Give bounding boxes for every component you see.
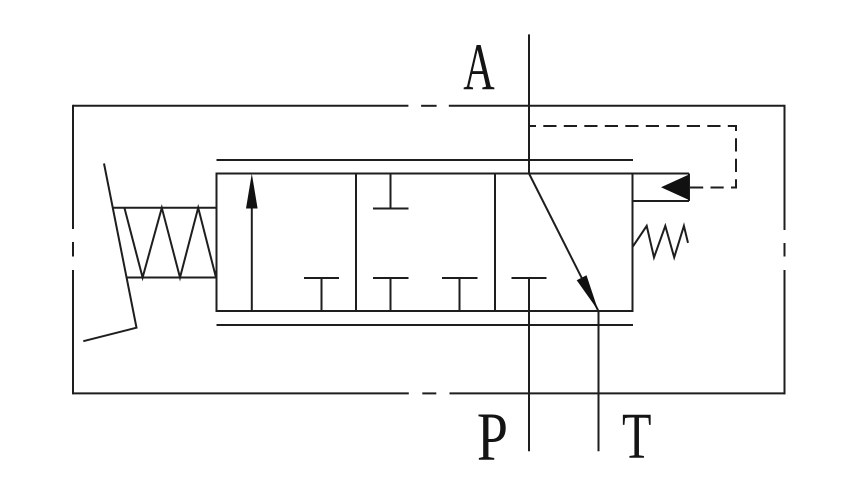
port line T	[598, 311, 600, 451]
flow path arrow A to T position 3	[529, 174, 598, 311]
pilot arrowhead	[661, 175, 689, 201]
position divider 1	[355, 174, 357, 312]
pilot box	[633, 174, 690, 202]
enclosure chain-line top edge	[73, 105, 785, 107]
port line P	[528, 311, 530, 451]
blocked port top position 2	[373, 174, 409, 209]
blocked port bottom position 1	[304, 278, 339, 311]
port line A	[528, 34, 530, 173]
blocked port bottom-right position 2	[442, 278, 478, 311]
enclosure chain-line left edge	[72, 105, 74, 395]
blocked port P position 3	[512, 278, 547, 311]
return spring right	[633, 226, 689, 258]
position divider 2	[494, 174, 496, 312]
manual lever	[83, 164, 136, 342]
enclosure chain-line right edge	[784, 105, 786, 395]
blocked port bottom-left position 2	[373, 278, 409, 311]
enclosure chain-line bottom edge	[73, 392, 785, 394]
mounting plate top line	[217, 159, 634, 161]
pilot dashed line	[530, 126, 736, 188]
return spring left	[113, 208, 217, 278]
svg-text:P: P	[477, 398, 508, 475]
svg-text:T: T	[622, 401, 651, 473]
valve body outline	[217, 174, 633, 312]
svg-text:A: A	[463, 31, 495, 105]
flow arrow up position 1	[246, 174, 258, 311]
mounting plate bottom line	[217, 324, 634, 326]
